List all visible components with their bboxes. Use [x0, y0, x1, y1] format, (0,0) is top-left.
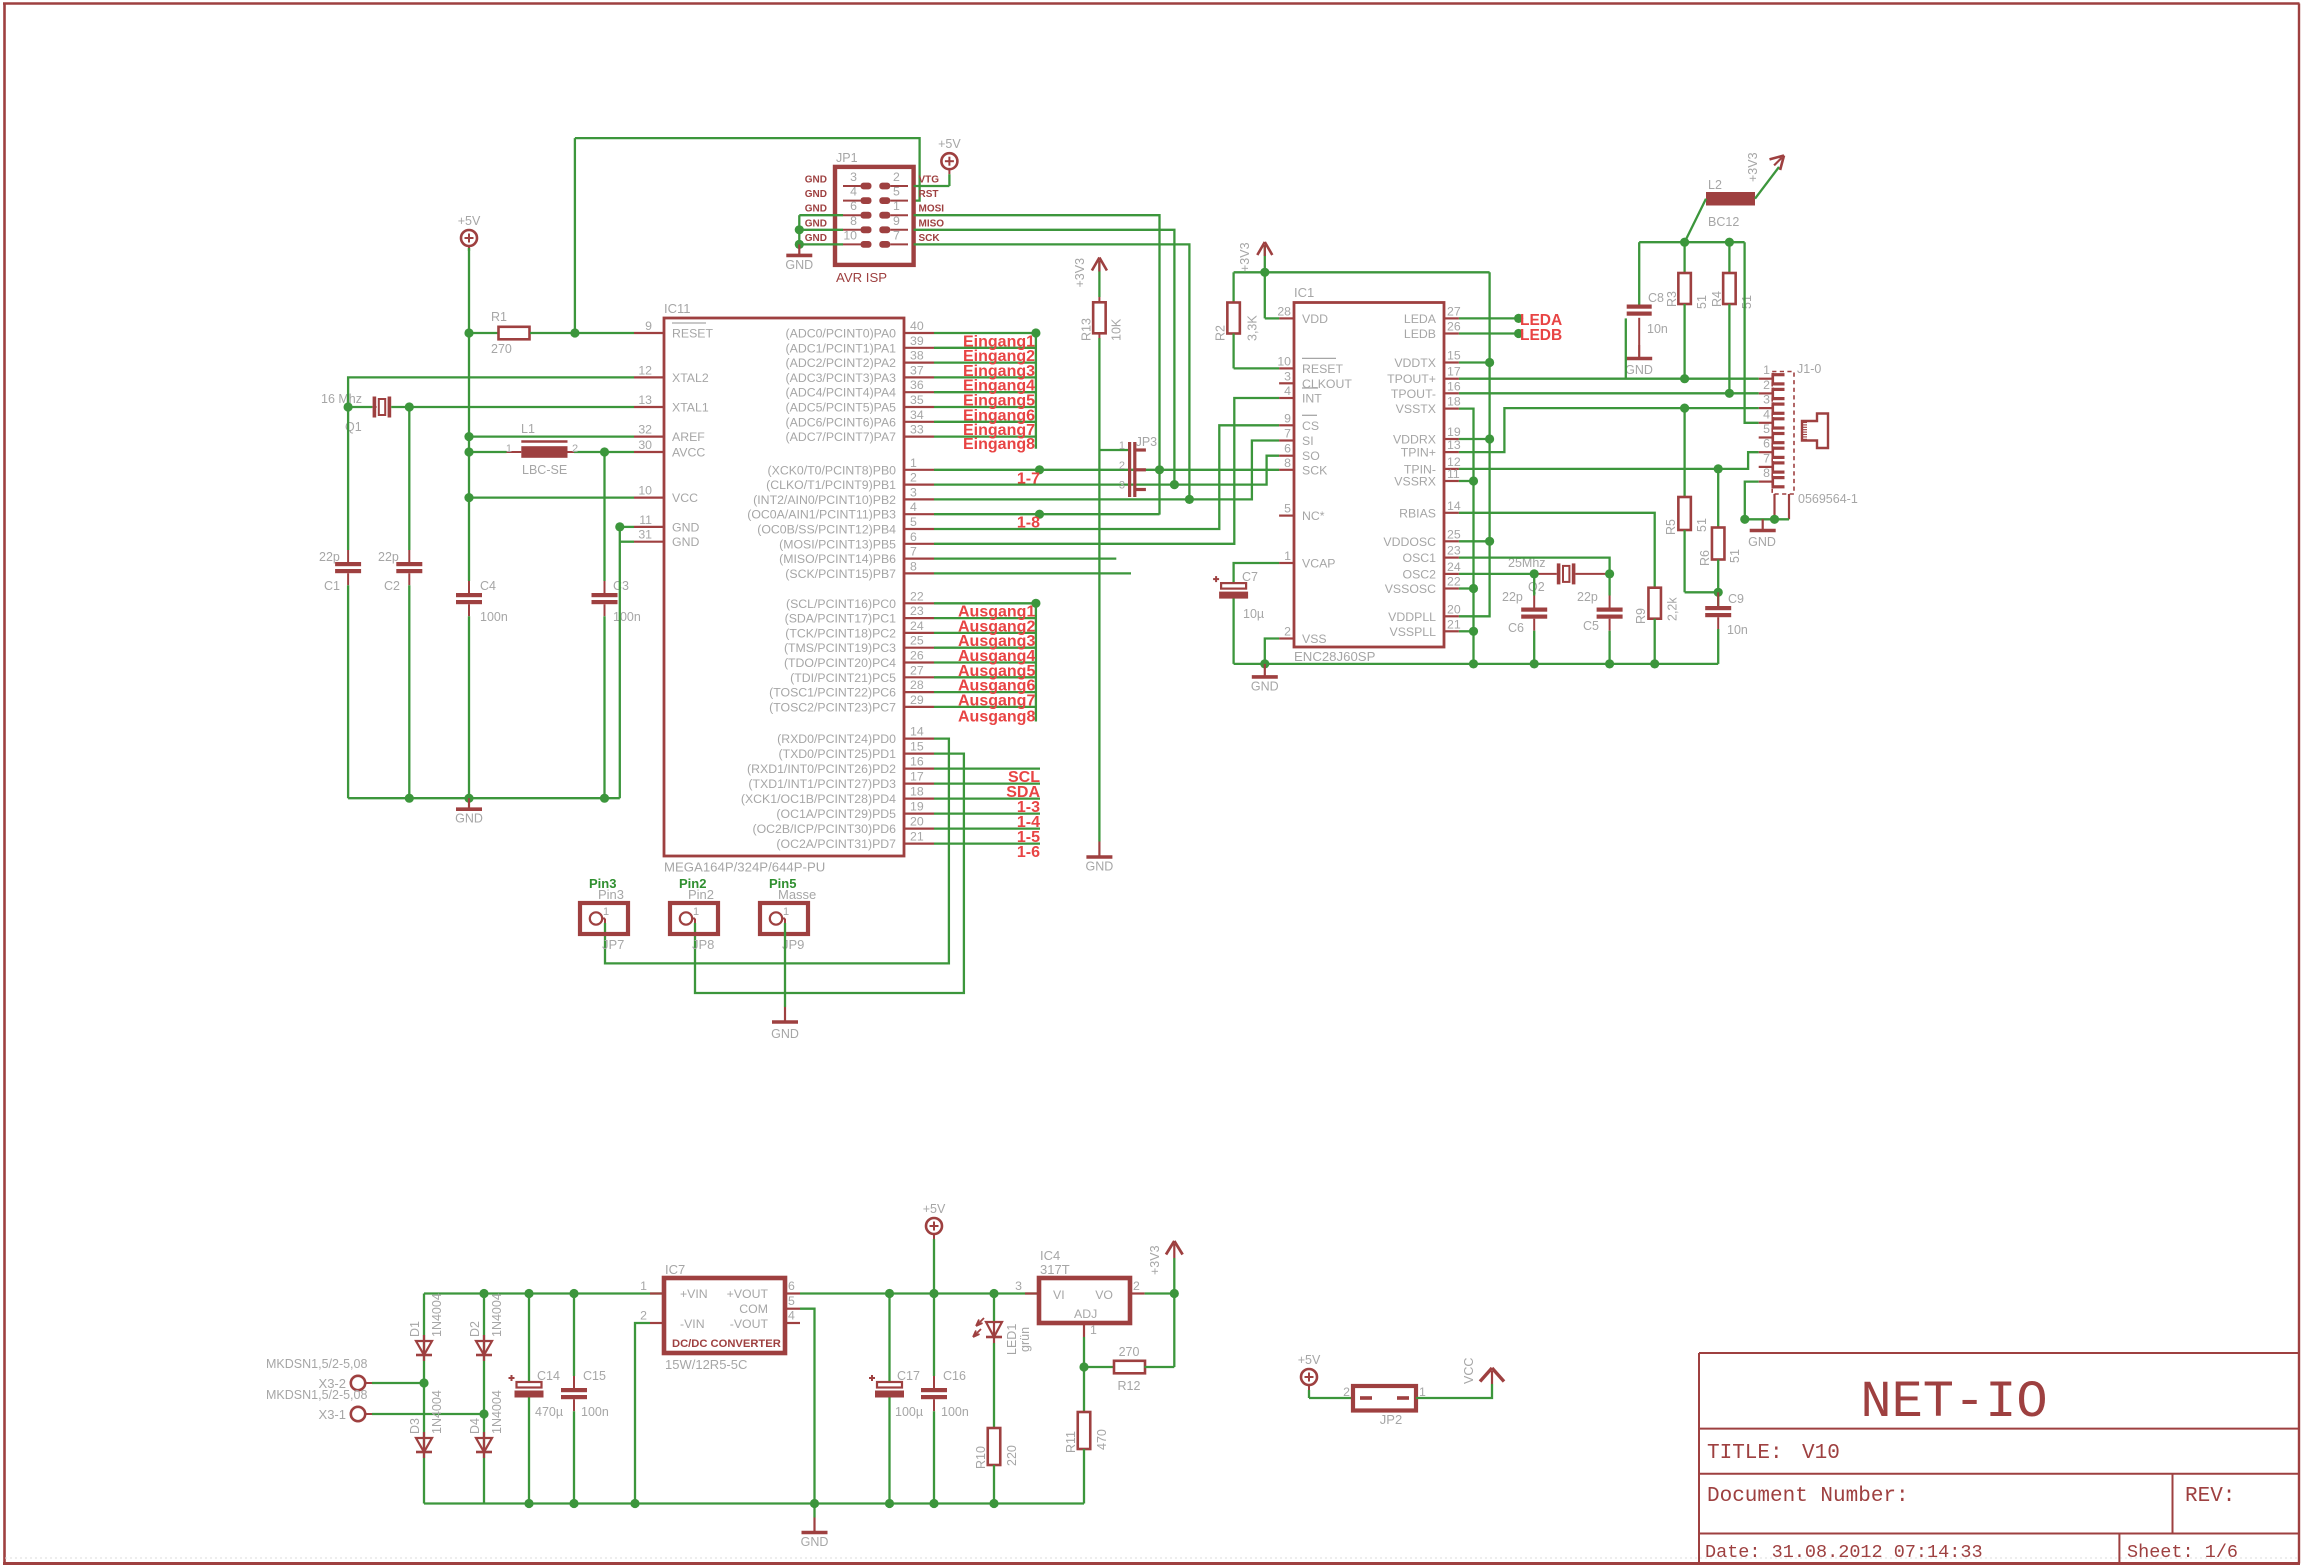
node rail C5 [1605, 659, 1614, 668]
svg-text:(RXD0/PCINT24)PD0: (RXD0/PCINT24)PD0 [777, 732, 896, 746]
wire rail corner to RJ45 pin4 [1745, 242, 1759, 423]
wire JP1 MISO run [914, 230, 1175, 485]
svg-text:220: 220 [1005, 1445, 1019, 1466]
svg-text:R2: R2 [1214, 325, 1228, 341]
wire JP1 MOSI run [914, 215, 1160, 514]
svg-text:VSSPLL: VSSPLL [1390, 625, 1437, 639]
svg-text:LEDA: LEDA [1404, 312, 1437, 326]
svg-text:Date: 31.08.2012 07:14:33: Date: 31.08.2012 07:14:33 [1705, 1542, 1983, 1563]
svg-text:(XCK0/T0/PCINT8)PB0: (XCK0/T0/PCINT8)PB0 [768, 463, 897, 477]
power VCC arrow [1462, 1358, 1504, 1384]
label Document Number row [1707, 1485, 2235, 1508]
svg-text:(TDO/PCINT20)PC4: (TDO/PCINT20)PC4 [784, 656, 896, 670]
wire Eingang8 drop [1035, 333, 1037, 449]
wire TPOUT+ to RJ45 pin1 [1459, 378, 1759, 380]
svg-text:51: 51 [1695, 518, 1709, 532]
svg-text:36: 36 [910, 378, 924, 392]
svg-text:100n: 100n [480, 610, 508, 624]
svg-text:C5: C5 [1583, 619, 1599, 633]
wire PB0/SCK net [934, 469, 1279, 471]
svg-text:24: 24 [1447, 560, 1461, 574]
svg-text:AVCC: AVCC [672, 446, 705, 460]
svg-text:1N4004: 1N4004 [490, 1293, 504, 1337]
wire VSS distribution column [1459, 409, 1474, 664]
RJ45 plug icon [1802, 414, 1828, 449]
svg-text:22: 22 [1447, 575, 1461, 589]
svg-text:1N4004: 1N4004 [430, 1390, 444, 1434]
node rail C17 bottom [885, 1499, 894, 1508]
svg-text:39: 39 [910, 334, 924, 348]
resistor R4 51 [1710, 242, 1754, 393]
node PB1/MISO-column junction [1170, 480, 1179, 489]
svg-text:3: 3 [850, 170, 857, 184]
wire PB5/INT net [934, 398, 1279, 544]
resistor R11 470 [1064, 1412, 1109, 1504]
svg-text:25: 25 [910, 634, 924, 648]
node VDDOSC junction [1485, 537, 1494, 546]
svg-text:100n: 100n [613, 610, 641, 624]
svg-text:30: 30 [638, 438, 652, 452]
svg-text:D4: D4 [468, 1418, 482, 1434]
svg-text:Q2: Q2 [1528, 580, 1545, 594]
svg-text:(SCL/PCINT16)PC0: (SCL/PCINT16)PC0 [786, 597, 896, 611]
svg-text:18: 18 [910, 785, 924, 799]
node XTAL2/C1/Q1 junction [344, 402, 353, 411]
svg-text:8: 8 [850, 214, 857, 228]
IC1 right pin names and stubs [1383, 304, 1460, 638]
svg-text:10n: 10n [1727, 623, 1748, 637]
wire IC7 COM return [800, 1309, 815, 1504]
wire PB2/SI net [934, 441, 1279, 500]
svg-text:29: 29 [910, 693, 924, 707]
wire ground rail under IC1 [1234, 663, 1719, 665]
connector JP8 [670, 876, 718, 952]
svg-text:LEDB: LEDB [1404, 327, 1436, 341]
svg-text:4: 4 [910, 500, 917, 514]
svg-text:20: 20 [1447, 602, 1461, 616]
node X3-1/D2 junction [479, 1409, 488, 1418]
svg-text:AREF: AREF [672, 430, 705, 444]
svg-text:12: 12 [638, 363, 652, 377]
svg-text:BC12: BC12 [1708, 215, 1739, 229]
ground GND power section [801, 1504, 829, 1550]
wire L2 right to +3V3 [1755, 167, 1779, 199]
svg-text:2,2k: 2,2k [1666, 597, 1680, 621]
wire PA0-PA7 input wires [934, 333, 1036, 437]
svg-text:JP1: JP1 [836, 151, 858, 165]
svg-text:(TXD0/PCINT25)PD1: (TXD0/PCINT25)PD1 [778, 747, 896, 761]
power +3V3 power section [1148, 1241, 1183, 1294]
svg-text:-VIN: -VIN [680, 1317, 705, 1331]
svg-text:40: 40 [910, 319, 924, 333]
IC IC4 317T body [1039, 1248, 1130, 1323]
svg-text:(MOSI/PCINT13)PB5: (MOSI/PCINT13)PB5 [779, 537, 896, 551]
svg-text:grün: grün [1018, 1327, 1032, 1352]
wire TPIN+ jog to RJ45 pin3 [1459, 408, 1759, 452]
svg-text:VCAP: VCAP [1302, 557, 1336, 571]
resistor R6 51 [1698, 469, 1742, 606]
node PA0/Eingang8 junction [1031, 328, 1040, 337]
wire +5V rail top-left vertical [468, 248, 470, 333]
svg-text:ENC28J60SP: ENC28J60SP [1294, 649, 1376, 664]
LED LED1 gruen [973, 1294, 1032, 1356]
power +5V top-left [458, 214, 481, 251]
svg-text:DC/DC CONVERTER: DC/DC CONVERTER [672, 1338, 781, 1350]
svg-text:V10: V10 [1802, 1442, 1840, 1465]
capacitor C4 100n [456, 333, 508, 798]
IC IC7 DC/DC converter body [664, 1262, 785, 1372]
svg-text:8: 8 [1763, 466, 1770, 480]
svg-text:7: 7 [1763, 451, 1770, 465]
wire top rail to JP1 RST [575, 138, 920, 201]
svg-text:31: 31 [638, 528, 652, 542]
svg-text:5: 5 [910, 515, 917, 529]
svg-text:4: 4 [850, 185, 857, 199]
svg-text:L1: L1 [521, 422, 535, 436]
svg-text:Document Number:: Document Number: [1707, 1485, 1909, 1508]
svg-text:GND: GND [805, 233, 827, 244]
label Eingang1-8 [963, 333, 1035, 453]
svg-text:27: 27 [910, 663, 924, 677]
svg-text:VDDOSC: VDDOSC [1383, 535, 1436, 549]
svg-text:(ADC7/PCINT7)PA7: (ADC7/PCINT7)PA7 [786, 430, 897, 444]
svg-text:38: 38 [910, 349, 924, 363]
svg-text:17: 17 [1447, 365, 1461, 379]
svg-text:SO: SO [1302, 449, 1320, 463]
svg-text:C3: C3 [613, 579, 629, 593]
node VSSPLL junction [1469, 627, 1478, 636]
svg-text:VSS: VSS [1302, 632, 1327, 646]
svg-text:MISO: MISO [919, 218, 945, 229]
svg-text:JP3: JP3 [1136, 435, 1158, 449]
svg-text:MKDSN1,5/2-5,08: MKDSN1,5/2-5,08 [266, 1388, 367, 1402]
ground GND below JP3 [1086, 842, 1114, 874]
node VDDTX junction [1485, 358, 1494, 367]
capacitor C15 100n [561, 1294, 609, 1504]
svg-text:6: 6 [788, 1279, 795, 1293]
svg-text:(ADC0/PCINT0)PA0: (ADC0/PCINT0)PA0 [786, 327, 897, 341]
svg-text:1: 1 [1119, 440, 1125, 452]
resistor R12 270 [1084, 1294, 1174, 1394]
node VCC junction [464, 493, 473, 502]
svg-text:0569564-1: 0569564-1 [1798, 492, 1858, 506]
svg-text:OSC1: OSC1 [1403, 551, 1437, 565]
crystal Q2 25Mhz [1459, 556, 1610, 594]
node GND pin11 junction [615, 522, 624, 531]
svg-text:SI: SI [1302, 434, 1314, 448]
svg-text:23: 23 [1447, 544, 1461, 558]
svg-text:VTG: VTG [919, 175, 940, 186]
svg-text:TPOUT-: TPOUT- [1391, 387, 1436, 401]
IC11 right pin stubs and numbers [904, 319, 934, 844]
node XTAL1/C2 junction [405, 402, 414, 411]
node rail +5V/C16 [929, 1289, 938, 1298]
svg-text:(INT2/AIN0/PCINT10)PB2: (INT2/AIN0/PCINT10)PB2 [753, 493, 896, 507]
svg-text:100µ: 100µ [895, 1405, 923, 1419]
connector J1-0 RJ45 jack [1759, 362, 1858, 519]
svg-text:+5V: +5V [923, 1202, 946, 1216]
connector JP2 [1343, 1385, 1426, 1427]
node pin3/R5 junction [1680, 404, 1689, 413]
wire VDD distribution column [1459, 272, 1490, 616]
wire power bottom rail [424, 1502, 1084, 1504]
wire JP1 VTG to +5V [914, 185, 950, 187]
node rj45 gnd a [1740, 515, 1749, 524]
svg-text:VDDTX: VDDTX [1394, 356, 1436, 370]
svg-text:Pin2: Pin2 [688, 887, 714, 902]
svg-text:+5V: +5V [458, 214, 481, 228]
svg-text:22p: 22p [1502, 590, 1523, 604]
svg-text:22: 22 [910, 589, 924, 603]
svg-text:Sheet: 1/6: Sheet: 1/6 [2127, 1542, 2238, 1563]
svg-text:(SDA/PCINT17)PC1: (SDA/PCINT17)PC1 [785, 612, 897, 626]
svg-text:OSC2: OSC2 [1403, 567, 1437, 581]
IC11 left pin stubs and numbers [634, 319, 664, 542]
svg-text:100n: 100n [581, 1405, 609, 1419]
svg-text:VSSTX: VSSTX [1396, 402, 1436, 416]
svg-text:270: 270 [491, 342, 512, 356]
svg-text:(OC0A/AIN1/PCINT11)PB3: (OC0A/AIN1/PCINT11)PB3 [747, 508, 896, 522]
svg-text:6: 6 [850, 199, 857, 213]
svg-text:10µ: 10µ [1243, 607, 1264, 621]
svg-text:Masse: Masse [778, 887, 816, 902]
label Date row [1705, 1542, 2238, 1563]
svg-text:9: 9 [893, 214, 900, 228]
IC7 pin stubs [640, 1279, 800, 1323]
resistor R10 220 [974, 1343, 1019, 1504]
svg-text:2: 2 [1343, 1385, 1350, 1399]
svg-text:15: 15 [910, 740, 924, 754]
wire PB7 net [934, 572, 1131, 574]
svg-text:GND: GND [771, 1027, 799, 1041]
node VDDRX junction [1485, 434, 1494, 443]
svg-text:RST: RST [919, 189, 939, 200]
resistor R5 51 [1664, 408, 1709, 592]
svg-text:REV:: REV: [2185, 1485, 2235, 1508]
svg-text:3: 3 [1284, 369, 1291, 383]
svg-text:R12: R12 [1118, 1379, 1141, 1393]
wire PC0-PC7 output wires [934, 603, 1036, 707]
svg-text:(ADC2/PCINT2)PA2: (ADC2/PCINT2)PA2 [786, 356, 897, 370]
node D2 top junction [479, 1289, 488, 1298]
capacitor C5 22p [1577, 574, 1623, 664]
svg-text:R6: R6 [1698, 550, 1712, 566]
svg-text:35: 35 [910, 393, 924, 407]
svg-text:GND: GND [672, 520, 699, 534]
power +5V at JP1 [938, 137, 961, 186]
power +3V3 above R13 [1073, 258, 1107, 303]
wire PB1/SO net [934, 456, 1279, 485]
svg-text:(TCK/PCINT18)PC2: (TCK/PCINT18)PC2 [785, 626, 896, 640]
svg-text:(CLKO/T1/PCINT9)PB1: (CLKO/T1/PCINT9)PB1 [766, 478, 896, 492]
svg-text:Ausgang8: Ausgang8 [958, 709, 1035, 726]
wire R13 to JP3 pin1 [1099, 449, 1128, 451]
svg-text:16: 16 [910, 755, 924, 769]
svg-text:-VOUT: -VOUT [730, 1317, 769, 1331]
svg-text:IC7: IC7 [665, 1262, 685, 1277]
svg-text:C8: C8 [1648, 291, 1664, 305]
svg-text:C6: C6 [1508, 621, 1524, 635]
ground GND below IC1 [1251, 664, 1279, 694]
svg-text:10: 10 [1277, 354, 1291, 368]
svg-text:JP2: JP2 [1380, 1412, 1402, 1427]
wire IC7 +VOUT rail [800, 1292, 1039, 1294]
svg-text:10: 10 [638, 484, 652, 498]
svg-text:R1: R1 [491, 310, 507, 324]
node AREF junction [464, 432, 473, 441]
svg-text:3: 3 [1119, 480, 1125, 492]
node rail C14 top [524, 1289, 533, 1298]
svg-text:(TMS/PCINT19)PC3: (TMS/PCINT19)PC3 [784, 641, 896, 655]
wire +3V3 rail to IC1 VDD [1234, 272, 1490, 318]
IC11 left pin names [672, 323, 713, 549]
capacitor C8 10n [1627, 242, 1668, 345]
svg-text:25: 25 [1447, 527, 1461, 541]
svg-text:VO: VO [1095, 1288, 1113, 1302]
node OSC2/C6 junction [1530, 569, 1539, 578]
svg-text:(TOSC1/PCINT22)PC6: (TOSC1/PCINT22)PC6 [769, 686, 896, 700]
svg-text:VI: VI [1053, 1288, 1065, 1302]
svg-text:VDD: VDD [1302, 312, 1328, 326]
wire RJ45 gnd rail [1745, 518, 1789, 520]
svg-text:21: 21 [910, 830, 924, 844]
svg-text:470: 470 [1095, 1429, 1109, 1450]
node X3-2/D1 junction [419, 1378, 428, 1387]
wire JP1 GND pins left [799, 215, 843, 244]
node VO junction [1170, 1289, 1179, 1298]
svg-text:10: 10 [843, 228, 857, 242]
connector X3-2 pad [266, 1357, 367, 1391]
svg-text:NC*: NC* [1302, 509, 1325, 523]
svg-text:7: 7 [910, 545, 917, 559]
node -VIN rail junction [630, 1499, 639, 1508]
svg-text:LBC-SE: LBC-SE [522, 463, 567, 477]
svg-text:SCK: SCK [1302, 463, 1328, 477]
svg-text:2: 2 [1133, 1279, 1140, 1293]
svg-text:(MISO/PCINT14)PB6: (MISO/PCINT14)PB6 [779, 552, 896, 566]
svg-text:(XCK1/OC1B/PCINT28)PD4: (XCK1/OC1B/PCINT28)PD4 [741, 792, 896, 806]
svg-text:(ADC4/PCINT4)PA4: (ADC4/PCINT4)PA4 [786, 386, 897, 400]
IC4 pin stubs [1015, 1279, 1144, 1337]
ground GND below C8 [1625, 345, 1653, 377]
svg-text:37: 37 [910, 363, 924, 377]
svg-text:3,3K: 3,3K [1246, 315, 1260, 341]
svg-text:TPIN+: TPIN+ [1401, 446, 1436, 460]
svg-text:C16: C16 [943, 1369, 966, 1383]
IC IC11 MEGA164P/324P/644P-PU body [664, 301, 904, 875]
svg-text:(ADC6/PCINT6)PA6: (ADC6/PCINT6)PA6 [786, 415, 897, 429]
diode D3 1N4004 [408, 1390, 444, 1458]
svg-text:22p: 22p [378, 550, 399, 564]
ground GND below RJ45 [1748, 519, 1776, 549]
svg-text:1: 1 [640, 1279, 647, 1293]
svg-text:+5V: +5V [1298, 1353, 1321, 1367]
wire AREF from IC11 [469, 435, 634, 437]
svg-text:R3: R3 [1665, 291, 1679, 307]
wire PB3 net [934, 513, 1160, 515]
svg-text:14: 14 [910, 725, 924, 739]
wire XTAL1 from IC11 [391, 406, 634, 408]
svg-text:2: 2 [640, 1309, 647, 1323]
svg-text:16 Mhz: 16 Mhz [321, 392, 362, 406]
wire long vertical to GND [1098, 450, 1100, 842]
svg-text:NET-IO: NET-IO [1860, 1373, 2047, 1432]
svg-text:19: 19 [910, 800, 924, 814]
svg-text:R10: R10 [974, 1446, 988, 1469]
label SCL SDA 1-3 1-4 1-5 1-6 [1006, 769, 1040, 861]
svg-text:3: 3 [1015, 1279, 1022, 1293]
node TPOUT-/R4 junction [1725, 389, 1734, 398]
svg-text:C17: C17 [897, 1369, 920, 1383]
svg-text:11: 11 [639, 513, 652, 527]
svg-text:100n: 100n [941, 1405, 969, 1419]
svg-text:1: 1 [506, 443, 512, 455]
IC1 left pin names and stubs [1277, 304, 1352, 646]
svg-text:2: 2 [1284, 625, 1291, 639]
svg-text:IC11: IC11 [664, 301, 691, 316]
svg-text:C9: C9 [1728, 592, 1744, 606]
node TPOUT+/R3 junction [1680, 374, 1689, 383]
wire L2 left diagonal to rail [1685, 199, 1706, 243]
inductor L1 LBC-SE [469, 422, 634, 477]
svg-text:(OC1A/PCINT29)PD5: (OC1A/PCINT29)PD5 [776, 807, 896, 821]
node COM rail junction [810, 1499, 819, 1508]
node rail C17 top [885, 1289, 894, 1298]
svg-text:3: 3 [910, 485, 917, 499]
svg-text:1: 1 [1090, 1323, 1097, 1337]
svg-text:RESET: RESET [672, 327, 713, 341]
inductor L2 BC12 [1706, 178, 1755, 229]
node PC0/Ausgang8 junction [1031, 599, 1040, 608]
ground GND below JP9 [771, 1007, 799, 1041]
svg-text:+3V3: +3V3 [1238, 242, 1252, 272]
node PB2/SCK-column junction [1185, 495, 1194, 504]
svg-text:C15: C15 [583, 1369, 606, 1383]
svg-text:GND: GND [785, 258, 813, 272]
svg-text:15: 15 [1447, 349, 1461, 363]
node rail R9 [1650, 659, 1659, 668]
wire RESET to IC11 pin9 [575, 332, 634, 334]
svg-text:1: 1 [783, 906, 789, 918]
svg-text:34: 34 [910, 408, 924, 422]
wire PB4/CS net [934, 425, 1279, 529]
svg-text:1N4004: 1N4004 [490, 1390, 504, 1434]
svg-text:(TDI/PCINT21)PC5: (TDI/PCINT21)PC5 [790, 671, 896, 685]
wire JP9 to ground [784, 923, 786, 1007]
svg-text:LED1: LED1 [1005, 1324, 1019, 1355]
svg-text:TPOUT+: TPOUT+ [1387, 372, 1436, 386]
wire PD1 to JP8 loop [695, 754, 964, 993]
svg-text:GND: GND [1625, 363, 1653, 377]
svg-text:LEDB: LEDB [1520, 327, 1562, 344]
svg-text:+3V3: +3V3 [1073, 258, 1087, 288]
svg-text:3: 3 [1763, 393, 1770, 407]
svg-text:C7: C7 [1242, 570, 1258, 584]
svg-text:R13: R13 [1080, 318, 1094, 341]
node rail R10 [989, 1499, 998, 1508]
power +5V at JP2 [1298, 1353, 1321, 1398]
svg-text:2: 2 [1119, 460, 1125, 472]
wire JP2 to VCC [1416, 1384, 1492, 1398]
svg-text:14: 14 [1447, 499, 1461, 513]
svg-text:6: 6 [1284, 442, 1291, 456]
node rail C2 [405, 794, 414, 803]
wire IC4 ADJ column [1083, 1337, 1085, 1412]
diode D2 1N4004 [468, 1293, 504, 1361]
svg-text:GND: GND [805, 204, 827, 215]
svg-text:7: 7 [1284, 427, 1291, 441]
svg-text:1: 1 [910, 456, 917, 470]
